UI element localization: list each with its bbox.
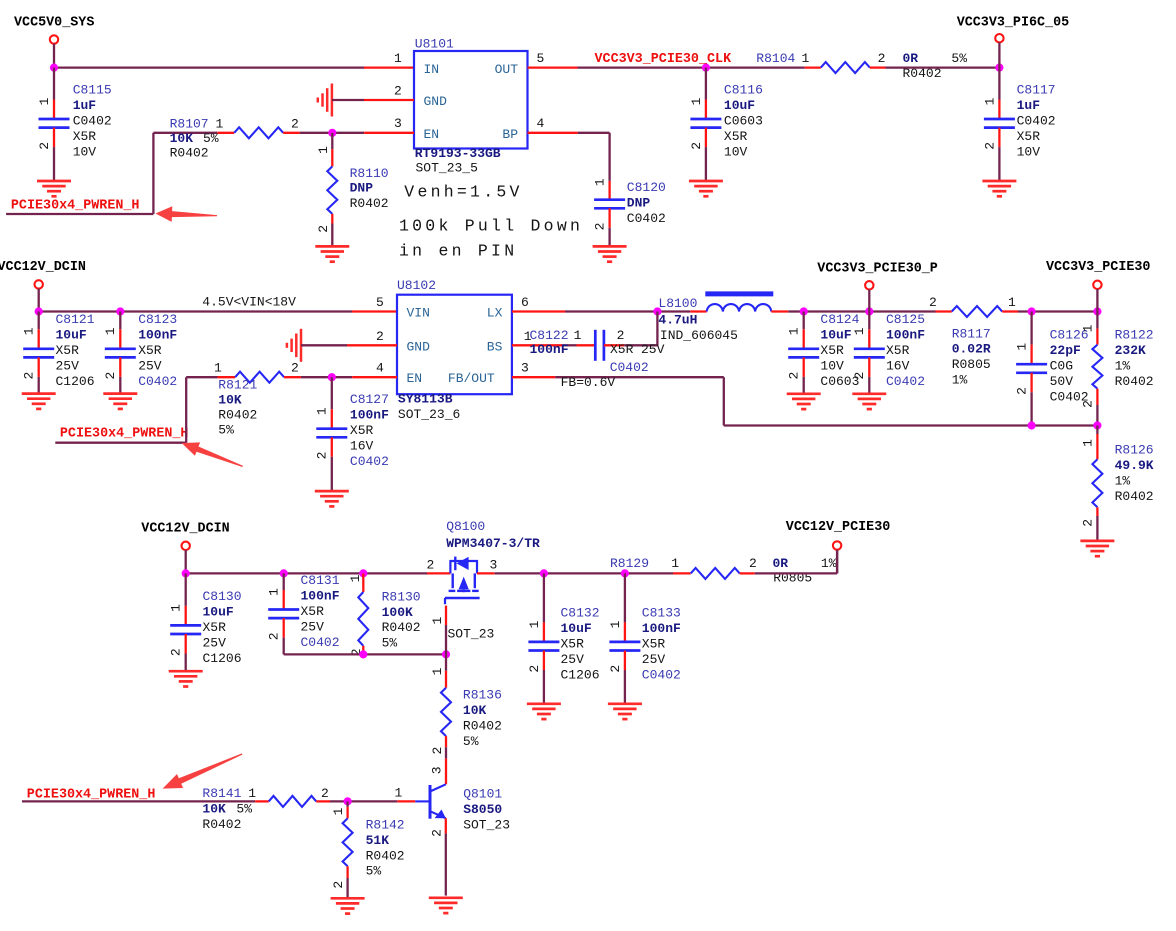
resistor R8122 [1080, 312, 1102, 426]
junction C8125/port P [865, 307, 873, 315]
R8129 labels [610, 556, 837, 586]
R8117 labels [929, 295, 1016, 388]
svg-text:2: 2 [617, 328, 625, 343]
wire PWREN_H top [6, 133, 153, 214]
svg-text:10V: 10V [724, 145, 748, 160]
svg-text:1%: 1% [952, 373, 968, 388]
capacitor C8126 [1015, 312, 1048, 426]
wire Q8100 gate [430, 606, 446, 655]
svg-text:EN: EN [424, 127, 440, 142]
svg-text:WPM3407-3/TR: WPM3407-3/TR [446, 536, 540, 551]
svg-text:50V: 50V [1050, 374, 1074, 389]
svg-text:DNP: DNP [627, 196, 651, 211]
svg-text:25V: 25V [642, 652, 666, 667]
svg-text:2: 2 [689, 142, 704, 150]
net PCIE30x4_PWREN_H (middle) [60, 427, 189, 442]
svg-text:PCIE30x4_PWREN_H: PCIE30x4_PWREN_H [11, 199, 140, 214]
svg-text:R8121: R8121 [218, 377, 257, 392]
svg-text:51K: 51K [366, 833, 390, 848]
C8130 labels [203, 589, 242, 666]
svg-text:U8102: U8102 [397, 278, 436, 293]
resistor R8117 [936, 306, 1019, 317]
svg-text:R0805: R0805 [952, 357, 991, 372]
svg-text:2: 2 [331, 881, 346, 889]
svg-text:10uF: 10uF [203, 605, 234, 620]
svg-text:2: 2 [982, 142, 997, 150]
svg-text:1: 1 [394, 51, 402, 66]
svg-text:2: 2 [430, 747, 445, 755]
Q8100 labels [427, 519, 541, 642]
wire EN to U8102 [301, 376, 397, 378]
wire gate bus [284, 653, 446, 655]
svg-text:R8129: R8129 [610, 556, 649, 571]
wire EN mid row [186, 376, 217, 378]
wire base net [330, 785, 415, 801]
svg-text:10V: 10V [820, 359, 844, 374]
junction EN/C8127 [328, 373, 336, 381]
svg-text:SOT_23: SOT_23 [463, 818, 510, 833]
svg-text:GND: GND [407, 339, 431, 354]
svg-text:0.02R: 0.02R [952, 342, 991, 357]
ground (C8130) [169, 671, 203, 686]
svg-text:2: 2 [1015, 387, 1030, 395]
ground (R8110) [315, 246, 349, 261]
capacitor C8120 [593, 178, 626, 246]
svg-text:X5R: X5R [73, 129, 97, 144]
capacitor C8121 [22, 312, 55, 394]
svg-text:2: 2 [878, 51, 886, 66]
junction VCC5V0/C8115 [50, 64, 58, 72]
svg-text:R0402: R0402 [366, 848, 405, 863]
svg-text:U8101: U8101 [415, 36, 454, 51]
svg-text:R8107: R8107 [170, 117, 209, 132]
svg-text:25V: 25V [561, 652, 585, 667]
wire VCC12V bottom rail [186, 572, 451, 574]
junction R8142 [344, 797, 352, 805]
svg-text:1: 1 [315, 407, 330, 415]
svg-text:Q8101: Q8101 [463, 787, 502, 802]
svg-text:C0402: C0402 [886, 374, 925, 389]
svg-text:RT9193-33GB: RT9193-33GB [415, 146, 501, 161]
svg-text:R8104: R8104 [756, 51, 795, 66]
svg-text:C0402: C0402 [73, 114, 112, 129]
wire VCC5V0 rail [54, 66, 364, 68]
svg-text:C8123: C8123 [138, 312, 177, 327]
wire U8101 GND [332, 99, 414, 101]
svg-text:R8141: R8141 [202, 786, 241, 801]
svg-text:25V: 25V [301, 619, 325, 634]
svg-text:C8130: C8130 [203, 589, 242, 604]
wire to VCC12V_PCIE30 [755, 550, 837, 574]
svg-text:R0402: R0402 [170, 146, 209, 161]
svg-text:2: 2 [321, 786, 329, 801]
capacitor C8127 [315, 377, 348, 491]
svg-text:10uF: 10uF [724, 98, 755, 113]
ground (R8126) [1080, 541, 1114, 556]
junction gate [442, 650, 450, 658]
svg-text:3: 3 [394, 116, 402, 131]
svg-text:VCC3V3_PI6C_05: VCC3V3_PI6C_05 [957, 16, 1069, 31]
junction C8132 [540, 569, 548, 577]
transistor Q8101 (NPN S8050) [415, 759, 446, 837]
svg-text:4: 4 [537, 116, 545, 131]
wire BP net [528, 133, 610, 181]
wire VCC3V3 P rail [804, 310, 936, 312]
svg-text:25V: 25V [641, 342, 665, 357]
svg-text:R8142: R8142 [366, 818, 405, 833]
svg-text:10uF: 10uF [561, 621, 592, 636]
svg-text:6: 6 [521, 295, 529, 310]
arrow (top) [156, 206, 218, 222]
annotation Venh [404, 183, 522, 202]
svg-text:1: 1 [802, 51, 810, 66]
svg-text:1: 1 [1080, 439, 1095, 447]
svg-text:1: 1 [348, 574, 363, 582]
svg-text:X5R: X5R [886, 343, 910, 358]
C8133 labels [642, 606, 681, 683]
svg-text:2: 2 [22, 372, 37, 380]
svg-text:2: 2 [376, 329, 384, 344]
svg-text:Venh=1.5V: Venh=1.5V [404, 183, 522, 202]
capacitor C8115 [37, 68, 70, 181]
resistor R8126 [1080, 426, 1102, 541]
svg-text:in en PIN: in en PIN [399, 242, 517, 261]
svg-text:2: 2 [1080, 519, 1095, 527]
resistor R8121 [218, 372, 301, 383]
svg-text:10V: 10V [73, 145, 97, 160]
svg-text:R0402: R0402 [350, 196, 389, 211]
power port VCC12V_DCIN [0, 260, 86, 311]
svg-text:1uF: 1uF [73, 98, 97, 113]
svg-text:1: 1 [267, 588, 282, 596]
junction C8123 [116, 307, 124, 315]
resistor R8129 [673, 568, 755, 579]
svg-text:1: 1 [852, 327, 867, 335]
capacitor C8132 [527, 573, 560, 703]
svg-text:1: 1 [37, 97, 52, 105]
svg-text:2: 2 [1080, 400, 1095, 408]
svg-text:2: 2 [169, 648, 184, 656]
R8126 labels [1115, 442, 1154, 504]
svg-text:X5R: X5R [610, 342, 634, 357]
svg-text:0R: 0R [903, 51, 919, 66]
svg-text:1: 1 [216, 117, 224, 132]
ground (C8116) [689, 181, 723, 196]
op-amp U8102 (buck SY8113B) [397, 295, 512, 395]
svg-text:BS: BS [487, 339, 503, 354]
ground (C8133) [608, 704, 642, 719]
svg-text:R8130: R8130 [382, 589, 421, 604]
svg-text:C0402: C0402 [301, 635, 340, 650]
svg-text:1: 1 [574, 328, 582, 343]
net PCIE30x4_PWREN_H (top) [11, 199, 140, 214]
svg-text:10K: 10K [202, 802, 226, 817]
svg-text:X5R: X5R [724, 129, 748, 144]
svg-text:VCC3V3_PCIE30: VCC3V3_PCIE30 [1046, 260, 1150, 275]
R8122 labels [1115, 327, 1154, 389]
svg-text:C8125: C8125 [886, 312, 925, 327]
svg-text:1: 1 [689, 97, 704, 105]
svg-text:1: 1 [982, 97, 997, 105]
ground (Q8101) [429, 898, 463, 913]
svg-text:2: 2 [316, 225, 331, 233]
U8102 pin numbers [376, 295, 532, 376]
capacitor C8123 [103, 312, 136, 394]
svg-text:22pF: 22pF [1050, 343, 1081, 358]
svg-text:1: 1 [214, 361, 222, 376]
svg-text:2: 2 [929, 295, 937, 310]
svg-text:1: 1 [1015, 343, 1030, 351]
svg-text:X5R: X5R [301, 604, 325, 619]
svg-text:C8124: C8124 [820, 312, 859, 327]
U8101 pin numbers [394, 51, 545, 131]
svg-text:100K: 100K [382, 605, 413, 620]
C8117 labels [1017, 83, 1056, 160]
svg-text:2: 2 [103, 372, 118, 380]
svg-text:16V: 16V [350, 439, 374, 454]
svg-text:X5R: X5R [138, 343, 162, 358]
R8136 labels [463, 688, 502, 749]
svg-text:1: 1 [593, 178, 608, 186]
svg-text:X5R: X5R [642, 637, 666, 652]
C8122 labels [530, 328, 665, 375]
svg-text:SOT_23_5: SOT_23_5 [416, 161, 478, 176]
capacitor C8125 [852, 312, 885, 394]
annotation VIN range [202, 295, 296, 310]
power port VCC3V3_PCIE30 [1046, 260, 1150, 311]
wire L8100 out [788, 310, 803, 312]
R8130 labels [382, 589, 421, 650]
svg-text:1: 1 [248, 786, 256, 801]
svg-text:R0402: R0402 [202, 817, 241, 832]
svg-text:LX: LX [487, 306, 503, 321]
svg-text:100nF: 100nF [886, 328, 925, 343]
junction C8133 [621, 569, 629, 577]
ground (C8123) [103, 394, 137, 409]
svg-text:SY8113B: SY8113B [398, 392, 453, 407]
C8120 labels [627, 180, 666, 226]
resistor R8104 [805, 62, 886, 73]
svg-text:10uF: 10uF [820, 328, 851, 343]
svg-text:C8122: C8122 [530, 328, 569, 343]
svg-text:R8117: R8117 [952, 326, 991, 341]
svg-text:1uF: 1uF [1017, 98, 1041, 113]
ground (C8120) [593, 246, 627, 261]
C8125 labels [886, 312, 925, 389]
junction EN/R8110 [328, 129, 336, 137]
wire VCC12V rail [39, 310, 397, 312]
svg-text:R8136: R8136 [463, 688, 502, 703]
R8110 labels [350, 166, 389, 211]
svg-text:1: 1 [22, 327, 37, 335]
junction OUT/C8116 [702, 64, 710, 72]
inductor L8100 [690, 294, 788, 312]
arrow (middle) [182, 442, 243, 467]
svg-text:VCC3V3_PCIE30_P: VCC3V3_PCIE30_P [817, 262, 938, 277]
svg-text:2: 2 [787, 372, 802, 380]
R8141 labels [202, 786, 328, 832]
svg-text:S8050: S8050 [463, 802, 502, 817]
C8126 labels [1050, 327, 1089, 404]
annotation FB=0.6V [561, 375, 616, 390]
svg-text:FB/OUT: FB/OUT [448, 371, 495, 386]
resistor R8142 [331, 801, 353, 898]
svg-text:25V: 25V [203, 636, 227, 651]
svg-text:5%: 5% [236, 802, 252, 817]
svg-text:IN: IN [424, 62, 440, 77]
svg-text:VCC3V3_PCIE30_CLK: VCC3V3_PCIE30_CLK [595, 52, 733, 67]
svg-text:EN: EN [407, 371, 423, 386]
C8116 labels [724, 83, 763, 160]
R8142 labels [366, 818, 405, 879]
ground (C8121) [22, 394, 56, 409]
svg-text:C8115: C8115 [73, 83, 112, 98]
svg-text:C0603: C0603 [724, 114, 763, 129]
svg-text:R0402: R0402 [463, 719, 502, 734]
C8115 labels [73, 83, 112, 160]
svg-text:10K: 10K [170, 131, 194, 146]
U8101 labels [415, 36, 501, 175]
svg-text:2: 2 [852, 372, 867, 380]
svg-text:5%: 5% [382, 636, 398, 651]
svg-text:232K: 232K [1115, 343, 1146, 358]
svg-text:10V: 10V [1017, 145, 1041, 160]
resistor R8130 [348, 573, 368, 656]
wire EN row left [153, 132, 217, 134]
svg-text:5: 5 [537, 51, 545, 66]
power port VCC12V_DCIN (bottom) [141, 521, 229, 573]
net VCC3V3_PCIE30_CLK [595, 52, 733, 67]
svg-text:25V: 25V [56, 359, 80, 374]
R8104 labels [756, 51, 967, 81]
svg-text:X5R: X5R [203, 620, 227, 635]
capacitor C8133 [608, 573, 641, 703]
C8123 labels [138, 312, 177, 389]
wire Q8100 drain [477, 572, 673, 574]
svg-text:100nF: 100nF [350, 408, 389, 423]
ground (C8132) [527, 704, 561, 719]
L8100 labels [658, 296, 738, 343]
svg-text:25V: 25V [138, 359, 162, 374]
junction C8126 top [1028, 307, 1036, 315]
R8121 labels [214, 361, 299, 438]
svg-text:5%: 5% [951, 51, 967, 66]
resistor R8136 [430, 654, 451, 758]
svg-text:BP: BP [502, 127, 518, 142]
C8124 labels [820, 312, 859, 389]
svg-text:IND_606045: IND_606045 [660, 328, 738, 343]
svg-text:X5R: X5R [561, 637, 585, 652]
resistor R8110 [316, 133, 337, 246]
svg-text:X5R: X5R [350, 423, 374, 438]
svg-text:C1206: C1206 [561, 668, 600, 683]
ground (C8125) [852, 394, 886, 409]
op-amp U8101 (LDO RT9193-33GB) [414, 51, 528, 149]
svg-text:C0402: C0402 [138, 374, 177, 389]
wire PWREN_H middle [55, 377, 186, 443]
svg-text:1: 1 [169, 604, 184, 612]
capacitor C8130 [169, 573, 202, 671]
svg-text:10uF: 10uF [56, 328, 87, 343]
wire FB/OUT net [512, 377, 1098, 425]
U8102 labels [397, 278, 460, 422]
svg-text:R0402: R0402 [1115, 374, 1154, 389]
ground (U8102 GND pin) [287, 329, 301, 362]
C8132 labels [561, 606, 600, 683]
svg-text:100nF: 100nF [642, 621, 681, 636]
svg-text:2: 2 [749, 556, 757, 571]
svg-text:R8126: R8126 [1115, 442, 1154, 457]
power port VCC3V3_PCIE30_P [817, 262, 938, 312]
svg-text:Q8100: Q8100 [446, 519, 485, 534]
svg-text:C8131: C8131 [301, 573, 340, 588]
svg-text:1%: 1% [821, 556, 837, 571]
transistor Q8100 (P-MOSFET) [445, 557, 480, 605]
svg-text:1: 1 [430, 667, 445, 675]
svg-text:10K: 10K [218, 392, 242, 407]
svg-text:2: 2 [608, 665, 623, 673]
svg-text:C8127: C8127 [350, 392, 389, 407]
svg-text:100nF: 100nF [530, 342, 569, 357]
wire PWREN_H bottom [22, 800, 255, 802]
svg-text:1: 1 [527, 620, 542, 628]
svg-text:10K: 10K [463, 703, 487, 718]
net PCIE30x4_PWREN_H (bottom) [27, 788, 156, 803]
svg-text:C8120: C8120 [627, 180, 666, 195]
svg-text:4: 4 [376, 361, 384, 376]
svg-text:VCC12V_DCIN: VCC12V_DCIN [141, 521, 229, 536]
C8127 labels [350, 392, 389, 469]
Q8101 labels [463, 787, 510, 833]
svg-text:C0402: C0402 [350, 454, 389, 469]
svg-text:1: 1 [395, 785, 403, 800]
svg-text:C0G: C0G [1050, 358, 1073, 373]
svg-text:SOT_23: SOT_23 [448, 627, 495, 642]
svg-text:X5R: X5R [1017, 129, 1041, 144]
svg-text:5%: 5% [366, 864, 382, 879]
C8131 labels [301, 573, 340, 650]
svg-text:1: 1 [671, 556, 679, 571]
svg-text:R8122: R8122 [1115, 327, 1154, 342]
junction C8124 [800, 307, 808, 315]
svg-text:2: 2 [37, 142, 52, 150]
svg-text:3: 3 [521, 361, 529, 376]
svg-text:GND: GND [424, 94, 448, 109]
svg-text:VIN: VIN [407, 306, 430, 321]
R8107 labels [170, 117, 299, 161]
svg-text:C8121: C8121 [56, 312, 95, 327]
svg-text:2: 2 [291, 361, 299, 376]
ground (U8101 GND pin) [318, 84, 332, 117]
svg-text:X5R: X5R [820, 343, 844, 358]
svg-text:2: 2 [267, 632, 282, 640]
wire R8117 out [1018, 310, 1097, 312]
svg-text:2: 2 [527, 665, 542, 673]
svg-text:C0402: C0402 [610, 360, 649, 375]
svg-text:C1206: C1206 [56, 374, 95, 389]
svg-text:100nF: 100nF [301, 588, 340, 603]
power port VCC3V3_PI6C_05 [957, 16, 1069, 68]
junction R8130 top [359, 569, 367, 577]
svg-text:SOT_23_6: SOT_23_6 [398, 407, 460, 422]
svg-text:2: 2 [427, 557, 435, 572]
svg-text:3: 3 [490, 557, 498, 572]
ground (C8115) [37, 181, 71, 196]
svg-text:X5R: X5R [56, 343, 80, 358]
wire OUT net [528, 66, 805, 68]
junction FB/R8126 [1093, 421, 1101, 429]
svg-text:2: 2 [394, 84, 402, 99]
